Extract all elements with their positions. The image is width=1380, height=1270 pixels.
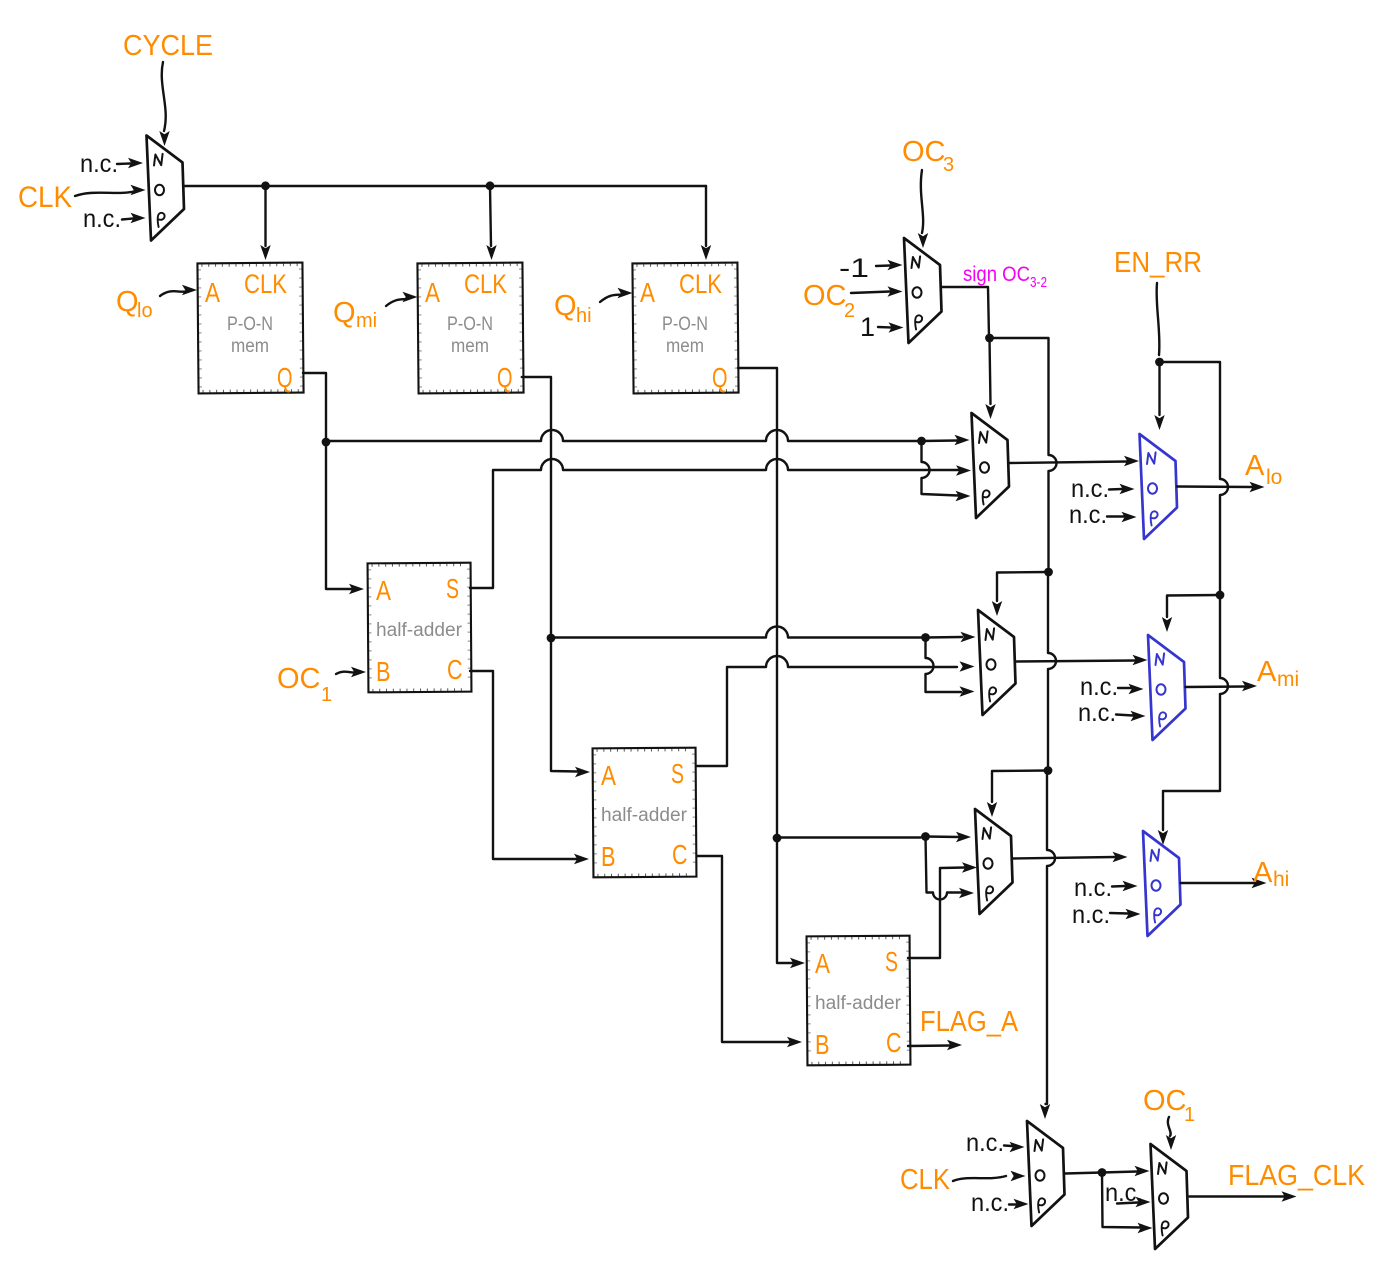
arrow W4 into U5 O (960, 661, 975, 671)
svg-text:Q: Q (497, 362, 513, 393)
svg-text:half-adder: half-adder (815, 993, 902, 1014)
wire n.c. to U9 N (1004, 1142, 1025, 1152)
svg-text:lo: lo (1266, 466, 1282, 489)
label A_mi (1257, 656, 1299, 691)
svg-text:-1: -1 (839, 253, 869, 283)
svg-text:hi: hi (1273, 868, 1289, 891)
wire W5 bus to U7 N (777, 836, 921, 838)
wire M3 Q down (738, 368, 777, 838)
wire U4 out to A_lo (1177, 482, 1265, 492)
mux U6 (blue) (1148, 635, 1186, 740)
wire EN_RR into U4 select (1154, 362, 1164, 430)
label n.c. U9 input N (966, 1129, 1004, 1157)
arrow into U10 N (1102, 1166, 1150, 1176)
svg-text:A: A (601, 760, 616, 791)
svg-text:Q: Q (277, 362, 293, 393)
wire U9 out to U10 N (1065, 1173, 1102, 1174)
label OC3 (902, 136, 954, 176)
wire into U5 N (926, 632, 976, 642)
svg-text:n.c.: n.c. (83, 205, 121, 233)
wire into U3 N (922, 435, 970, 445)
wire W3 bus to U5 N (551, 627, 921, 638)
half-adder HA1 (368, 563, 472, 693)
label 1 (U2 input P) (860, 312, 875, 342)
wire U7 N drop to P input (926, 837, 975, 900)
svg-text:n.c.: n.c. (1074, 874, 1112, 902)
wire EN_RR into U6 select (1162, 595, 1220, 632)
wire HA3 S up to U7 O (908, 862, 977, 958)
svg-text:n.c.: n.c. (1069, 501, 1107, 529)
svg-text:B: B (815, 1029, 830, 1060)
wire node W1 down to HA1 A (326, 442, 364, 594)
wire U7 out to U8 N (1013, 852, 1128, 862)
half-adder HA3 (807, 936, 911, 1066)
wire EN_RR rail to U8 (1163, 595, 1228, 830)
svg-text:OC: OC (803, 280, 847, 312)
junction EN_RR rail at U6 (1216, 591, 1225, 600)
label n.c. U10 input O (1105, 1179, 1143, 1207)
wire n.c. to U1 N (117, 158, 143, 168)
wire select rail to U9 (1046, 771, 1056, 1105)
label -1 (U2 input N) (839, 253, 869, 283)
label Qmi (333, 297, 377, 332)
wire select rail right and down (990, 338, 1057, 571)
svg-text:mi: mi (356, 310, 377, 332)
wire Qlo to M1 A (160, 285, 197, 296)
wire EN_RR rail right and down (1160, 362, 1229, 595)
svg-text:OC: OC (1143, 1085, 1187, 1117)
wire node W3 down to HA2 A (551, 638, 590, 777)
svg-text:mem: mem (666, 336, 704, 357)
svg-text:S: S (885, 946, 898, 977)
wire n.c. to U4 P (1107, 512, 1137, 522)
mux U3 (972, 413, 1010, 518)
junction EN_RR split (1155, 358, 1164, 367)
svg-text:A: A (425, 277, 440, 308)
junction select rail at U5 (1044, 568, 1053, 577)
wire CLK to U1 O (75, 185, 146, 196)
svg-text:1: 1 (1184, 1104, 1195, 1126)
wire U10 out to FLAG_CLK (1190, 1191, 1297, 1201)
wire -1 to U2 N (876, 260, 903, 270)
wire HA3 C to FLAG_A (908, 1040, 962, 1050)
mux U2 (904, 238, 942, 343)
wire n.c. to U8 O (1112, 881, 1138, 891)
svg-text:EN_RR: EN_RR (1114, 247, 1202, 279)
svg-text:CLK: CLK (244, 269, 287, 299)
svg-text:mem: mem (231, 336, 269, 357)
svg-text:1: 1 (860, 312, 875, 342)
svg-text:n.c.: n.c. (966, 1129, 1004, 1157)
wire CYCLE to U1 select (159, 62, 169, 146)
wire U5 N drop to P input (926, 638, 975, 697)
wire HA1 C to HA2 B (470, 671, 589, 864)
svg-text:A: A (1245, 450, 1265, 482)
svg-text:n.c.: n.c. (1071, 475, 1109, 503)
svg-text:Q: Q (333, 297, 356, 329)
label n.c. U9 input P (971, 1189, 1009, 1217)
svg-text:hi: hi (576, 305, 592, 327)
mux U10 (1151, 1144, 1189, 1249)
wire U1 output bus (184, 185, 706, 187)
wire n.c. to U9 P (1009, 1199, 1029, 1209)
wire n.c. to U8 P (1110, 909, 1141, 919)
svg-text:CYCLE: CYCLE (123, 30, 213, 62)
wire CLK drop to M2 (486, 186, 496, 260)
wire n.c. to U6 O (1118, 684, 1144, 694)
svg-text:A: A (815, 948, 830, 979)
svg-text:CLK: CLK (679, 269, 722, 299)
svg-text:n.c.: n.c. (971, 1189, 1009, 1217)
svg-text:P-O-N: P-O-N (447, 314, 493, 335)
wire U8 out to A_hi (1181, 878, 1267, 888)
svg-text:half-adder: half-adder (376, 620, 463, 641)
label FLAG_A (920, 1006, 1019, 1038)
junction U1 bus to M2 CLK (486, 181, 495, 190)
svg-text:P-O-N: P-O-N (227, 314, 273, 335)
mux U8 (blue) (1143, 831, 1181, 936)
wire U9 out down to U10 P (1102, 1173, 1153, 1234)
wire W1 bus to U3 N (326, 430, 917, 441)
wire Qmi to M2 A (386, 292, 418, 306)
memory M1 (P-O-N mem) (197, 263, 303, 394)
svg-text:CLK: CLK (900, 1164, 951, 1196)
svg-text:B: B (601, 841, 616, 872)
junction select rail at U7 (1044, 766, 1053, 775)
wire select into U7 (987, 771, 1048, 818)
label OC1 (HA1 B input) (277, 663, 332, 706)
wire U6 out to A_mi (1186, 681, 1258, 691)
label n.c. U4 input O (1071, 475, 1109, 503)
svg-text:Q: Q (116, 286, 139, 318)
label n.c. U6 input O (1080, 673, 1118, 701)
wire U3 out to U4 N (1009, 456, 1139, 466)
mux U7 (975, 809, 1013, 914)
svg-text:1: 1 (321, 684, 332, 706)
wire n.c. to U10 O (1117, 1197, 1151, 1207)
label n.c. U1 input N (80, 150, 118, 178)
wire OC1 to U10 select (1166, 1117, 1176, 1150)
mux U5 (978, 610, 1016, 715)
wire CLK to U9 O (953, 1171, 1026, 1181)
label A_hi (1253, 857, 1289, 891)
memory M3 (P-O-N mem) (632, 263, 738, 394)
svg-text:n.c.: n.c. (80, 150, 118, 178)
mux U1 (147, 136, 185, 241)
half-adder HA2 (593, 748, 697, 878)
wire select into U5 (992, 572, 1049, 616)
label CLK U1 input O (18, 181, 72, 214)
wire n.c. to U4 O (1109, 484, 1135, 494)
wire EN_RR down (1157, 283, 1160, 355)
wire M2 Q down (522, 377, 551, 638)
junction node W1 (322, 438, 331, 447)
label n.c. U6 input P (1078, 699, 1116, 727)
svg-text:P-O-N: P-O-N (662, 314, 708, 335)
wire U3 N drop to P input (922, 441, 971, 501)
svg-text:2: 2 (844, 300, 855, 322)
label A_lo (1245, 450, 1282, 489)
svg-text:n.c.: n.c. (1080, 673, 1118, 701)
label FLAG_CLK (1228, 1160, 1366, 1192)
arrow EN_RR into U8 select (1158, 830, 1168, 845)
wire n.c. to U6 P (1116, 711, 1146, 721)
wire CLK drop to M1 (260, 186, 270, 260)
svg-text:C: C (447, 654, 463, 685)
junction U9 out split (1098, 1168, 1107, 1177)
label OC2 (U2 input O) (803, 280, 855, 322)
svg-text:FLAG_CLK: FLAG_CLK (1228, 1160, 1366, 1192)
svg-text:A: A (205, 277, 220, 308)
svg-text:lo: lo (137, 300, 153, 322)
svg-text:CLK: CLK (464, 269, 507, 299)
wire HA2 C to HA3 B (697, 856, 802, 1047)
memory M2 (P-O-N mem) (417, 263, 523, 394)
junction W3 at U5 N (921, 633, 930, 642)
wire OC3 to U2 select (918, 170, 928, 248)
wire HA2 S to W4 bus (U5 O) (697, 656, 957, 766)
wire M1 Q to node W1 (303, 373, 326, 442)
svg-text:3: 3 (943, 154, 954, 176)
svg-text:S: S (446, 573, 459, 604)
svg-text:FLAG_A: FLAG_A (920, 1006, 1019, 1038)
mux U9 (1027, 1121, 1065, 1226)
wire select rail to U7 junction (1048, 572, 1056, 770)
svg-text:B: B (376, 656, 391, 687)
label n.c. U8 input O (1074, 874, 1112, 902)
wire into U7 N (926, 832, 972, 842)
label n.c. U4 input P (1069, 501, 1107, 529)
svg-text:n.c.: n.c. (1078, 699, 1116, 727)
svg-text:half-adder: half-adder (601, 805, 688, 826)
svg-text:Q: Q (712, 362, 728, 393)
wire OC1 to HA1 B (336, 667, 366, 677)
wire CLK drop to M3 (701, 186, 711, 260)
svg-text:A: A (1257, 656, 1277, 688)
wire Qhi to M3 A (600, 288, 633, 302)
svg-text:CLK: CLK (18, 181, 72, 214)
label Qhi (554, 290, 592, 327)
junction W1 at U3 N (917, 437, 926, 446)
label n.c. U8 input P (1072, 901, 1110, 929)
svg-text:OC: OC (902, 136, 946, 168)
label Qlo (116, 286, 153, 322)
svg-text:mi: mi (1277, 668, 1299, 691)
svg-text:n.c.: n.c. (1072, 901, 1110, 929)
junction U1 bus to M1 CLK (261, 181, 270, 190)
svg-text:S: S (671, 758, 684, 789)
svg-text:mem: mem (451, 336, 489, 357)
label OC1 (U10 select) (1143, 1085, 1195, 1126)
wire U5 out to U6 N (1016, 655, 1148, 665)
wire n.c. to U1 P (122, 213, 146, 223)
junction W5 at U7 N (921, 832, 930, 841)
wire 1 to U2 P (878, 322, 904, 332)
wire select into U3 (985, 338, 995, 419)
label CLK (U9 input O) (900, 1164, 951, 1196)
arrow select into U9 (1040, 1104, 1050, 1119)
junction node W3 (547, 634, 556, 643)
arrow W2 into U3 O (956, 465, 971, 475)
svg-text:sign OC: sign OC (963, 263, 1030, 286)
svg-text:C: C (672, 839, 688, 870)
wire HA1 S to W2 bus (U3 O) (470, 459, 959, 588)
svg-text:A: A (1253, 857, 1273, 889)
svg-text:A: A (376, 575, 391, 606)
svg-text:A: A (640, 277, 655, 308)
label EN_RR (1114, 247, 1202, 279)
label CYCLE (123, 30, 213, 62)
junction select rail top (985, 334, 994, 343)
mux U4 (blue) (1140, 434, 1178, 539)
svg-text:Q: Q (554, 290, 577, 322)
wire U2 output to select rail (942, 287, 990, 338)
wire OC2 to U2 O (851, 286, 903, 296)
svg-text:3-2: 3-2 (1030, 275, 1047, 291)
label sign OC3-2 (963, 263, 1047, 291)
junction node W5 (773, 834, 782, 843)
label n.c. U1 input P (83, 205, 121, 233)
svg-text:C: C (886, 1027, 902, 1058)
svg-text:OC: OC (277, 663, 321, 695)
wire node W5 down to HA3 A (777, 838, 805, 968)
